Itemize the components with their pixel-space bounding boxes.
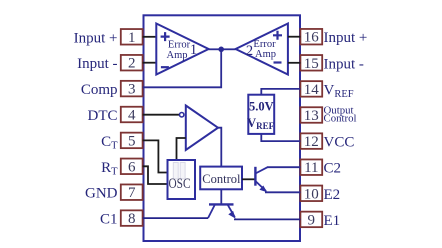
svg-text:1: 1: [128, 30, 136, 46]
wire pin15 to error amp 2 - input: [288, 62, 301, 64]
svg-text:6: 6: [128, 159, 136, 175]
wire Q2 collector to pin 11 C2: [268, 166, 301, 168]
svg-text:16: 16: [304, 30, 320, 46]
svg-text:C2: C2: [324, 161, 342, 177]
svg-text:GND: GND: [85, 186, 118, 202]
pin 3 box: [121, 81, 143, 98]
transistor Q1: [208, 204, 236, 218]
pin 1 box: [121, 29, 143, 46]
wire error amp 1 output to node: [209, 48, 222, 50]
pin 8 box: [121, 210, 143, 227]
wire pin2 to error amp 1 - input: [143, 62, 157, 64]
svg-text:8: 8: [128, 211, 136, 227]
wire pin1 to error amp 1 + input: [143, 36, 157, 38]
svg-text:10: 10: [304, 186, 319, 202]
wire feedback node to pin 3 Comp: [143, 49, 222, 87]
pin 7 box: [121, 184, 143, 201]
wire control box to transistor Q1 base: [220, 189, 222, 204]
IC package outline U1: [144, 15, 301, 241]
svg-text:Input -: Input -: [324, 56, 364, 72]
wire pin8 C1 to Q1 collector: [143, 217, 208, 219]
wire error amp 2 output to node: [221, 48, 235, 50]
transistor Q2: [255, 167, 268, 192]
wire pin16 to error amp 2 + input: [288, 36, 301, 38]
wire pin6 RT to oscillator: [143, 166, 168, 184]
wire comparator output to control box: [218, 128, 221, 167]
svg-text:VCC: VCC: [324, 135, 355, 151]
op-amp error amp 2: [236, 24, 288, 75]
wire vref box to pin 12 VCC: [261, 134, 300, 141]
wire oscillator to comparator input: [177, 138, 186, 160]
svg-text:Input -: Input -: [77, 56, 117, 72]
pin 4 box: [121, 107, 143, 124]
wire pin4 DTC to comparator bubble: [143, 114, 180, 116]
svg-text:12: 12: [304, 134, 319, 150]
wire Q2 emitter to pin 10 E2: [265, 191, 300, 193]
svg-text:E1: E1: [324, 213, 341, 229]
pin 2 box: [121, 55, 143, 72]
pin 5 box: [121, 133, 143, 150]
wire Q1 emitter to pin 9 E1: [234, 218, 300, 220]
svg-text:DTC: DTC: [88, 108, 118, 124]
pin 6 box: [121, 159, 143, 176]
svg-text:Control: Control: [324, 113, 357, 125]
comparator U2: [180, 106, 219, 151]
svg-text:11: 11: [304, 160, 318, 176]
pin 16 box: [300, 29, 322, 46]
svg-text:4: 4: [128, 108, 136, 124]
svg-text:Control: Control: [202, 172, 241, 186]
svg-text:2: 2: [128, 56, 136, 72]
node junction dot: [218, 47, 224, 53]
svg-text:2: 2: [246, 43, 253, 59]
svg-text:14: 14: [304, 82, 320, 98]
wire vref box to pin 14: [261, 89, 300, 95]
svg-text:3: 3: [128, 82, 136, 98]
pin 13 box: [300, 107, 322, 124]
svg-text:Amp: Amp: [255, 49, 276, 60]
pin 15 box: [300, 55, 322, 72]
svg-text:Comp: Comp: [81, 82, 118, 98]
pin 14 box: [300, 81, 322, 98]
svg-text:9: 9: [308, 212, 316, 228]
svg-text:5.0V: 5.0V: [249, 99, 274, 113]
svg-text:13: 13: [304, 108, 319, 124]
pin 9 box: [300, 212, 322, 229]
pin 12 box: [300, 133, 322, 150]
5.0V VREF regulator box: [247, 95, 275, 134]
svg-text:Input +: Input +: [324, 30, 368, 46]
wire pin5 CT to oscillator: [143, 140, 168, 172]
svg-text:E2: E2: [324, 187, 341, 203]
svg-text:15: 15: [304, 56, 319, 72]
svg-text:OSC: OSC: [169, 176, 191, 192]
svg-text:Amp: Amp: [167, 50, 188, 61]
oscillator OSC box: [168, 160, 196, 199]
control box: [200, 167, 242, 190]
svg-text:C1: C1: [100, 212, 118, 228]
pin 10 box: [300, 186, 322, 203]
svg-text:5: 5: [128, 133, 136, 149]
wire control box to transistor Q2 base: [242, 178, 255, 180]
pin 11 box: [300, 159, 322, 176]
op-amp error amp 1: [156, 24, 208, 75]
svg-text:1: 1: [190, 42, 197, 58]
svg-text:7: 7: [128, 185, 136, 201]
svg-text:Input +: Input +: [74, 30, 118, 46]
svg-text:Error: Error: [168, 40, 191, 51]
